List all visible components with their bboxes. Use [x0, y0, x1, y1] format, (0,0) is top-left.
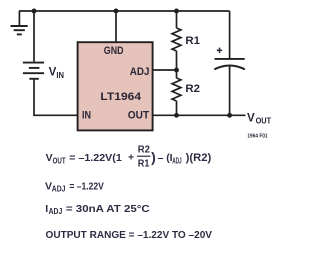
svg-text:–: –	[158, 152, 164, 164]
svg-text:V: V	[247, 111, 255, 124]
svg-text:OUT: OUT	[53, 156, 66, 165]
wire battery top	[33, 11, 35, 62]
svg-text:): )	[151, 149, 156, 165]
battery V1	[23, 63, 44, 79]
svg-text:)(R2): )(R2)	[186, 152, 212, 164]
svg-text:GND: GND	[104, 45, 124, 57]
svg-text:R2: R2	[185, 83, 200, 95]
svg-text:OUTPUT RANGE = –1.22V TO –20V: OUTPUT RANGE = –1.22V TO –20V	[46, 229, 213, 241]
svg-text:R1: R1	[185, 35, 200, 47]
wire top rail	[19, 10, 230, 12]
svg-text:= –1.22V(1: = –1.22V(1	[69, 152, 122, 164]
wire cap branch top	[229, 11, 231, 58]
resistor R1	[172, 28, 181, 51]
node top R1 junction	[174, 9, 179, 14]
label C1 plus	[217, 48, 222, 53]
node OUT divider junction	[174, 113, 179, 118]
svg-text:V: V	[49, 66, 57, 79]
svg-text:OUT: OUT	[256, 117, 272, 126]
svg-text:ADJ: ADJ	[49, 207, 63, 216]
svg-text:OUT: OUT	[128, 110, 150, 122]
wire cap bottom	[229, 66, 231, 115]
svg-text:R1: R1	[138, 158, 150, 169]
svg-text:R2: R2	[138, 144, 151, 155]
wire divider branch upper	[176, 11, 178, 28]
ground	[11, 11, 28, 34]
svg-text:1964 F01: 1964 F01	[247, 133, 268, 139]
svg-text:ADJ: ADJ	[130, 66, 150, 78]
formula VOUT line	[46, 144, 212, 169]
svg-text:LT1964: LT1964	[100, 91, 142, 103]
resistor R2	[172, 78, 181, 101]
wire between R1 and R2	[176, 51, 178, 78]
svg-text:= 30nA AT 25°C: = 30nA AT 25°C	[66, 203, 150, 215]
wire GND pin	[115, 11, 117, 42]
wire OUT rail	[153, 114, 246, 116]
svg-text:IN: IN	[56, 71, 64, 80]
svg-text:IN: IN	[82, 110, 91, 122]
formula VADJ line	[45, 180, 104, 193]
node top battery junction	[32, 9, 37, 14]
svg-text:= –1.22V: = –1.22V	[69, 180, 103, 192]
wire below R2	[176, 101, 178, 115]
label VOUT	[247, 111, 271, 125]
svg-text:V: V	[46, 152, 53, 164]
svg-text:+: +	[128, 152, 134, 164]
svg-text:ADJ: ADJ	[52, 184, 66, 193]
node ADJ junction	[174, 68, 179, 73]
svg-text:ADJ: ADJ	[172, 156, 181, 165]
op-amp U1 LT1964 body	[78, 42, 153, 130]
node top GND junction	[114, 9, 119, 14]
capacitor C1	[214, 59, 245, 70]
label VIN	[49, 66, 64, 81]
wire ADJ pin to divider	[153, 69, 177, 71]
formula IADJ line	[45, 203, 150, 216]
wire battery bottom to IN pin	[34, 79, 78, 116]
node OUT cap junction	[227, 113, 232, 118]
